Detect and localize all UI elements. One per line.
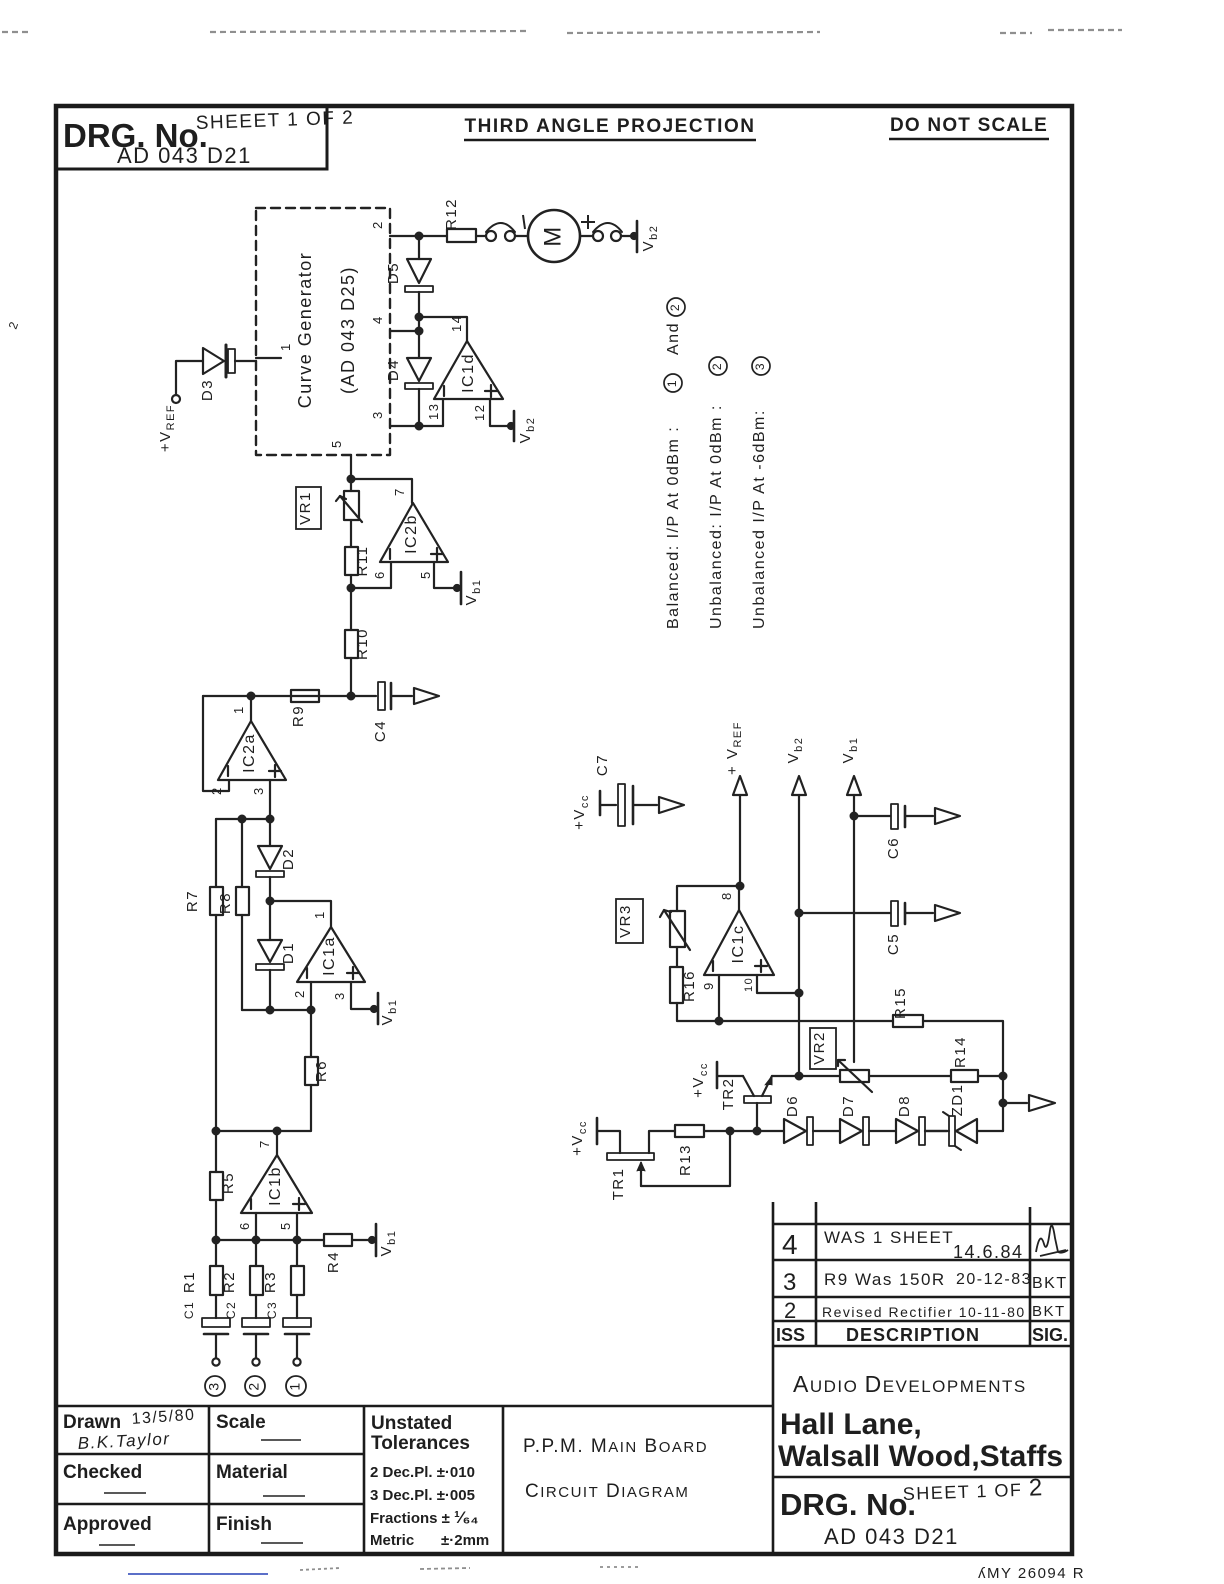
wire Vb1 to C6 <box>854 815 890 817</box>
svg-text:Revised Rectifier 10-11-80: Revised Rectifier 10-11-80 <box>822 1304 1026 1320</box>
svg-text:14.6.84: 14.6.84 <box>953 1242 1024 1262</box>
power +Vcc terminal at TR1 <box>596 1118 599 1144</box>
svg-text:R2: R2 <box>221 1271 238 1293</box>
svg-text:2: 2 <box>668 303 682 311</box>
node circled 3 <box>205 1376 225 1396</box>
revision table <box>773 1202 1072 1554</box>
diode D5 <box>407 259 431 283</box>
svg-text:C2: C2 <box>224 1301 238 1319</box>
svg-text:D6: D6 <box>784 1095 801 1117</box>
svg-text:Checked: Checked <box>63 1462 142 1483</box>
wire D6 to D7 <box>813 1130 840 1132</box>
node junction IC2a output <box>248 693 255 700</box>
node Vb2 terminal top right <box>631 233 637 239</box>
resistor R16 <box>670 967 683 1003</box>
svg-text:2: 2 <box>292 989 307 998</box>
svg-text:20-12-83: 20-12-83 <box>956 1271 1032 1288</box>
connector arrow output C6 <box>935 808 960 824</box>
resistor R11 <box>345 547 358 575</box>
note balanced input annotation line 1 <box>665 322 682 629</box>
wire pin 5 down from box <box>350 455 352 479</box>
op-amp IC2b <box>380 503 448 562</box>
wire R6 to IC1b row <box>216 1085 311 1131</box>
wire IC1d output to node <box>419 317 467 341</box>
svg-text:4: 4 <box>782 1229 799 1260</box>
svg-text:2: 2 <box>209 786 224 795</box>
wire pin 10 to Vb2 <box>757 975 799 993</box>
svg-text:13: 13 <box>426 403 441 420</box>
svg-text:ʎMY 26094 R: ʎMY 26094 R <box>978 1565 1085 1582</box>
node junction C5 on Vb2 <box>796 910 803 917</box>
svg-text:Hall Lane,: Hall Lane, <box>780 1408 922 1441</box>
node input terminal 1 <box>293 1358 300 1365</box>
svg-text:±·2mm: ±·2mm <box>441 1532 489 1549</box>
bottom left title block <box>56 1405 773 1554</box>
curve generator block (AD 043 D25) dashed box <box>256 208 390 455</box>
svg-text:DRG. No.: DRG. No. <box>780 1487 916 1522</box>
svg-text:DO NOT SCALE: DO NOT SCALE <box>890 115 1048 136</box>
diode D3 <box>203 348 224 374</box>
svg-text:D4: D4 <box>385 359 402 381</box>
svg-text:THIRD ANGLE PROJECTION: THIRD ANGLE PROJECTION <box>465 116 756 137</box>
node circled 3 in note line3 <box>752 357 770 375</box>
wire Vcc to C7 <box>600 804 616 806</box>
diode D7 <box>840 1119 862 1143</box>
svg-text:TR1: TR1 <box>610 1168 627 1201</box>
node input terminal 3 <box>212 1358 219 1365</box>
svg-text:4: 4 <box>370 315 385 324</box>
svg-text:Balanced: I/P At 0dBm :: Balanced: I/P At 0dBm : <box>665 426 682 629</box>
wire R15 to right column <box>923 1021 1003 1131</box>
svg-text:IC2b: IC2b <box>403 514 420 554</box>
svg-text:14: 14 <box>449 315 464 332</box>
svg-text:D3: D3 <box>199 379 216 401</box>
svg-text:Scale: Scale <box>216 1412 266 1433</box>
node junction R1 <box>213 1237 220 1244</box>
wire IC1a output <box>270 901 331 927</box>
svg-text:IC1a: IC1a <box>321 936 338 976</box>
svg-text:1: 1 <box>231 705 246 714</box>
wire meter to connector <box>580 235 592 237</box>
node pin3 junction <box>416 423 423 430</box>
wire R10 to output node <box>350 658 352 696</box>
diode D2 <box>269 819 271 846</box>
wire R13 to TR2 node <box>704 1130 757 1132</box>
svg-text:2: 2 <box>784 1298 798 1323</box>
svg-text:IC1b: IC1b <box>267 1166 284 1206</box>
svg-text:TR2: TR2 <box>720 1078 737 1111</box>
node circled 2 <box>245 1376 265 1396</box>
svg-text:M: M <box>539 225 566 247</box>
node junction pin2/D5 <box>416 233 423 240</box>
op-amp IC1d <box>434 341 503 399</box>
svg-text:3 Dec.Pl. ±·005: 3 Dec.Pl. ±·005 <box>370 1487 475 1504</box>
power +Vcc terminal at C7 <box>599 791 602 815</box>
capacitor C2 <box>242 1318 270 1327</box>
svg-text:WAS 1 SHEET: WAS 1 SHEET <box>824 1228 954 1247</box>
svg-text:3: 3 <box>206 1381 222 1390</box>
svg-text:D2: D2 <box>280 848 297 870</box>
svg-text:R4: R4 <box>325 1251 342 1273</box>
svg-text:2: 2 <box>246 1381 262 1390</box>
wire pin 9 <box>718 975 720 1021</box>
DRG. No. title box top-left <box>56 106 327 169</box>
svg-text:10: 10 <box>743 977 755 992</box>
svg-text:5: 5 <box>329 439 344 448</box>
scan artifact bottom marks <box>128 1567 640 1574</box>
svg-text:D1: D1 <box>280 942 297 964</box>
node pin4 junction <box>416 328 423 335</box>
svg-text:Walsall Wood,Staffs: Walsall Wood,Staffs <box>778 1440 1063 1473</box>
label VR2 boxed <box>810 1028 836 1069</box>
svg-text:R13: R13 <box>677 1144 694 1176</box>
capacitor C6 <box>891 804 898 829</box>
svg-text:2: 2 <box>710 362 724 370</box>
wire IC2b output feedback <box>351 479 412 503</box>
wire output line left <box>291 695 351 697</box>
wire R7 to IC1b row <box>215 915 217 1131</box>
wire junction row below IC2a <box>216 818 270 820</box>
wire VREF to D3 <box>176 361 203 395</box>
svg-text:Tolerances: Tolerances <box>371 1433 470 1454</box>
node junction IC1b output <box>274 1128 281 1135</box>
op-amp IC1c <box>704 910 774 975</box>
wire R9 to feedback corner <box>203 695 291 697</box>
resistor R14 <box>951 1070 978 1082</box>
wire Vcc to TR1 <box>597 1131 620 1153</box>
svg-text:R10: R10 <box>354 628 371 660</box>
node +VREF terminal <box>172 395 180 403</box>
wire pin 5 <box>296 1213 298 1240</box>
wire D7 to D8 <box>869 1130 896 1132</box>
svg-text:3: 3 <box>370 410 385 419</box>
svg-text:CIRCUIT DIAGRAM: CIRCUIT DIAGRAM <box>525 1481 689 1502</box>
resistor R9 <box>291 690 319 702</box>
op-amp IC2a <box>218 721 286 780</box>
svg-text:9: 9 <box>701 981 716 990</box>
svg-text:R12: R12 <box>443 198 460 230</box>
svg-text:DESCRIPTION: DESCRIPTION <box>846 1325 980 1345</box>
svg-text:AD 043 D21: AD 043 D21 <box>117 143 252 168</box>
scan artifact dashes top <box>2 30 1122 33</box>
svg-text:D8: D8 <box>896 1095 913 1117</box>
resistor R6 <box>310 1010 312 1057</box>
wire pin 6 <box>351 563 391 588</box>
svg-text:3: 3 <box>251 786 266 795</box>
wire TR2 collector to VR2 row <box>772 1075 840 1077</box>
node Vb1 terminal at R4 <box>369 1237 375 1243</box>
node junction R14/R15 column <box>1000 1073 1007 1080</box>
node circled 1 <box>286 1376 306 1396</box>
wire IC1c output up <box>738 886 740 910</box>
op-amp IC1b <box>241 1155 312 1213</box>
svg-text:Unbalanced: I/P At 0dBm :: Unbalanced: I/P At 0dBm : <box>708 404 725 629</box>
resistor R8 <box>241 819 243 887</box>
svg-text:Curve Generator: Curve Generator <box>295 252 315 409</box>
wire to D6 <box>757 1130 784 1132</box>
wire R12 to connector <box>476 235 486 237</box>
resistor R13 <box>675 1125 704 1137</box>
svg-text:R11: R11 <box>354 546 371 577</box>
svg-text:C1: C1 <box>182 1301 196 1319</box>
node junction IC1c output/VREF <box>737 883 744 890</box>
svg-text:7: 7 <box>257 1139 272 1148</box>
svg-text:7: 7 <box>392 487 407 496</box>
svg-text:P.P.M. MAIN BOARD: P.P.M. MAIN BOARD <box>523 1436 708 1457</box>
wire VR1 to R11 <box>350 520 352 547</box>
wire bottom junction row <box>216 1239 297 1241</box>
svg-text:Unbalanced I/P At -6dBm:: Unbalanced I/P At -6dBm: <box>751 409 768 629</box>
wire pin 3 to Vb1 <box>351 982 373 1009</box>
svg-text:R8: R8 <box>217 892 234 914</box>
resistor R4 <box>297 1239 324 1241</box>
svg-text:C3: C3 <box>265 1301 279 1319</box>
resistor R7 <box>215 819 217 887</box>
node junction pin5/feedback <box>348 476 355 483</box>
node junction pin9 <box>716 1018 723 1025</box>
svg-text:R14: R14 <box>952 1036 969 1068</box>
potentiometer VR3 <box>670 911 685 947</box>
svg-text:D5: D5 <box>385 262 402 284</box>
node junction D2/IC1a output <box>267 898 274 905</box>
wire D8 to ZD1 <box>925 1130 947 1132</box>
node junction Vb2 bottom <box>796 1073 803 1080</box>
svg-text:1: 1 <box>287 1381 303 1390</box>
node Vb1 terminal at IC2b <box>454 585 460 591</box>
svg-text:R9 Was 150R: R9 Was 150R <box>824 1270 946 1289</box>
svg-text:R6: R6 <box>313 1060 330 1082</box>
wire to output arrow <box>1003 1102 1027 1104</box>
svg-text:BKT: BKT <box>1032 1275 1068 1292</box>
wire D5 to node <box>418 292 420 331</box>
wire R14 to right column <box>978 1075 1003 1077</box>
wire pin 6 <box>255 1213 257 1240</box>
wire pin 4 <box>390 330 419 332</box>
wire TR1 drain up <box>649 1131 675 1153</box>
svg-text:R15: R15 <box>892 987 909 1019</box>
svg-text:IC1c: IC1c <box>730 925 747 964</box>
node input terminal 2 <box>252 1358 259 1365</box>
diode D1 <box>269 901 271 940</box>
svg-text:C5: C5 <box>885 933 902 955</box>
wire pin 3 <box>390 425 443 427</box>
label VR1 boxed <box>296 487 321 529</box>
wire lower junction row <box>242 1009 311 1011</box>
svg-text:8: 8 <box>719 891 734 900</box>
svg-text:Metric: Metric <box>370 1532 414 1549</box>
potentiometer VR2 <box>840 1070 869 1082</box>
svg-text:Drawn: Drawn <box>63 1412 121 1433</box>
rail +VREF <box>733 776 747 795</box>
connector arrow output C5 <box>935 905 960 921</box>
resistor R10 <box>345 630 358 658</box>
svg-text:VR1: VR1 <box>297 491 314 525</box>
node D5/IC1d output junction <box>416 314 423 321</box>
capacitor C1 <box>202 1318 230 1327</box>
node junction pin2/R6 <box>308 1007 315 1014</box>
svg-text:R7: R7 <box>184 890 201 912</box>
node junction R10/output line <box>348 693 355 700</box>
wire feedback IC2a <box>203 696 229 791</box>
connector contacts left pair <box>486 231 496 241</box>
diode D4 <box>418 331 420 358</box>
svg-text:5: 5 <box>418 570 433 579</box>
resistor R15 <box>893 1015 923 1027</box>
wire connector to Vb2 rail terminal <box>621 235 634 237</box>
svg-text:Unstated: Unstated <box>371 1413 452 1434</box>
wire R11 to node <box>350 575 352 588</box>
node junction TR2/diode chain <box>754 1128 761 1135</box>
diode D8 <box>896 1119 918 1143</box>
svg-text:VR3: VR3 <box>617 904 634 938</box>
wire IC2a output up <box>250 696 252 721</box>
wire ZD1 to right column <box>977 1130 1003 1132</box>
node junction R2 <box>253 1237 260 1244</box>
transistor TR1 <box>607 1153 654 1160</box>
svg-text:(AD 043 D25): (AD 043 D25) <box>338 266 358 394</box>
resistor R2 <box>255 1240 257 1266</box>
svg-text:C4: C4 <box>372 720 389 742</box>
label VR3 boxed <box>616 899 643 943</box>
svg-text:3: 3 <box>753 362 767 370</box>
node junction D2 <box>267 816 274 823</box>
svg-text:5: 5 <box>278 1221 293 1230</box>
svg-text:1: 1 <box>278 342 293 351</box>
svg-text:R16: R16 <box>681 970 698 1002</box>
node Vb1 terminal at IC1a <box>371 1006 377 1012</box>
connector arrow output C7 <box>659 797 684 813</box>
node circled 2 in note <box>667 298 685 316</box>
svg-text:6: 6 <box>372 570 387 579</box>
main ink group <box>256 208 390 455</box>
connector arrow output rectifier <box>1029 1095 1055 1111</box>
resistor R12 <box>447 229 476 242</box>
svg-text:Approved: Approved <box>63 1514 152 1535</box>
resistor R1 <box>215 1240 217 1266</box>
svg-text:R5: R5 <box>220 1172 237 1194</box>
svg-text:6: 6 <box>237 1221 252 1230</box>
svg-text:SIG.: SIG. <box>1032 1325 1068 1345</box>
svg-text:Finish: Finish <box>216 1514 272 1535</box>
svg-text:AD 043 D21: AD 043 D21 <box>824 1524 959 1549</box>
wire pin 5 to Vb1 <box>434 562 456 588</box>
node junction output arrow <box>1000 1100 1007 1107</box>
signature JGM <box>1036 1226 1068 1257</box>
wire D4 to pin3 line <box>418 389 420 426</box>
label meter plus <box>581 215 595 229</box>
node junction R7/R5 <box>213 1128 220 1135</box>
svg-text:BKT: BKT <box>1032 1303 1066 1320</box>
wire pin 13 <box>442 399 444 426</box>
wire pin 2 to R12 <box>390 235 447 237</box>
wire connector to meter <box>515 235 528 237</box>
node junction R3 <box>294 1237 301 1244</box>
node Vb2 terminal at IC1d <box>508 423 514 429</box>
svg-text:ZD1: ZD1 <box>949 1084 966 1117</box>
zener diode ZD1 <box>956 1119 977 1143</box>
svg-text:1: 1 <box>665 379 679 387</box>
node junction gate loop <box>727 1128 734 1135</box>
svg-text:VR2: VR2 <box>811 1031 828 1065</box>
wire R16 to bottom feedback row <box>677 1003 893 1021</box>
wire IC1b output <box>276 1131 278 1155</box>
wire Vb2 to C5 <box>799 912 890 914</box>
meter M1 <box>528 210 580 262</box>
svg-text:3: 3 <box>783 1269 798 1296</box>
svg-text:3: 3 <box>332 991 347 1000</box>
wire feedback to VR3 <box>677 886 739 911</box>
wire Vcc to TR2 emitter <box>717 1075 743 1077</box>
svg-text:R1: R1 <box>181 1271 198 1293</box>
node junction pin10 on Vb2 <box>796 990 803 997</box>
drawing border frame <box>56 106 1072 1554</box>
svg-text:D7: D7 <box>840 1095 857 1117</box>
connector arrow output C4 <box>414 688 439 704</box>
wire node to R10 <box>350 588 352 630</box>
capacitor C5 <box>891 901 898 926</box>
wire D3 to curve generator pin 1 <box>235 360 256 362</box>
wire pin 12 to Vb2 <box>490 399 510 426</box>
wire VR3 to R16 <box>676 947 678 967</box>
node junction D1 bottom <box>267 1007 274 1014</box>
resistor R3 <box>296 1240 298 1266</box>
svg-text:Material: Material <box>216 1462 288 1483</box>
svg-text:R3: R3 <box>262 1271 279 1293</box>
svg-text:12: 12 <box>472 404 487 421</box>
transistor TR2 <box>743 1076 754 1096</box>
svg-text:And: And <box>665 322 682 355</box>
wire pin 3 down <box>269 780 271 819</box>
wire pin 2 <box>310 982 312 1010</box>
svg-text:R9: R9 <box>290 705 307 727</box>
node circled 1 in note <box>664 374 682 392</box>
resistor R5 <box>215 1131 217 1172</box>
rail Vb1 <box>847 776 861 795</box>
wire VR2 to R14 <box>869 1075 951 1077</box>
capacitor C7 <box>618 784 625 826</box>
pin 1 tick inside box <box>256 357 281 359</box>
svg-text:C6: C6 <box>885 837 902 859</box>
power +Vcc terminal at TR2 <box>716 1062 719 1088</box>
connector contacts right pair <box>593 231 603 241</box>
node junction C6 on Vb1 <box>851 813 858 820</box>
svg-text:2 Dec.Pl. ±·010: 2 Dec.Pl. ±·010 <box>370 1464 475 1481</box>
wire TR1 gate loop <box>641 1131 730 1186</box>
wire junction to D5 <box>418 236 420 259</box>
node junction R11/pin6 <box>348 585 355 592</box>
svg-text:ISS: ISS <box>776 1325 805 1345</box>
svg-text:IC2a: IC2a <box>241 733 258 773</box>
svg-text:1: 1 <box>312 910 327 919</box>
op-amp IC1a <box>297 927 365 982</box>
wire R8 to lower row <box>241 915 243 1010</box>
svg-text:2: 2 <box>370 220 385 229</box>
capacitor C4 <box>351 695 376 697</box>
label meter minus <box>523 215 525 229</box>
capacitor C3 <box>283 1318 311 1327</box>
svg-text:IC1d: IC1d <box>460 353 477 393</box>
node junction R8 <box>239 816 246 823</box>
wire TR2 base down <box>756 1103 758 1131</box>
rail Vb2 <box>792 776 806 795</box>
svg-text:Fractions ± ¹⁄₆₄: Fractions ± ¹⁄₆₄ <box>370 1508 478 1527</box>
diode D6 <box>784 1119 806 1143</box>
node circled 2 in note line2 <box>709 357 727 375</box>
svg-text:C7: C7 <box>594 754 611 776</box>
potentiometer VR1 <box>350 479 352 491</box>
